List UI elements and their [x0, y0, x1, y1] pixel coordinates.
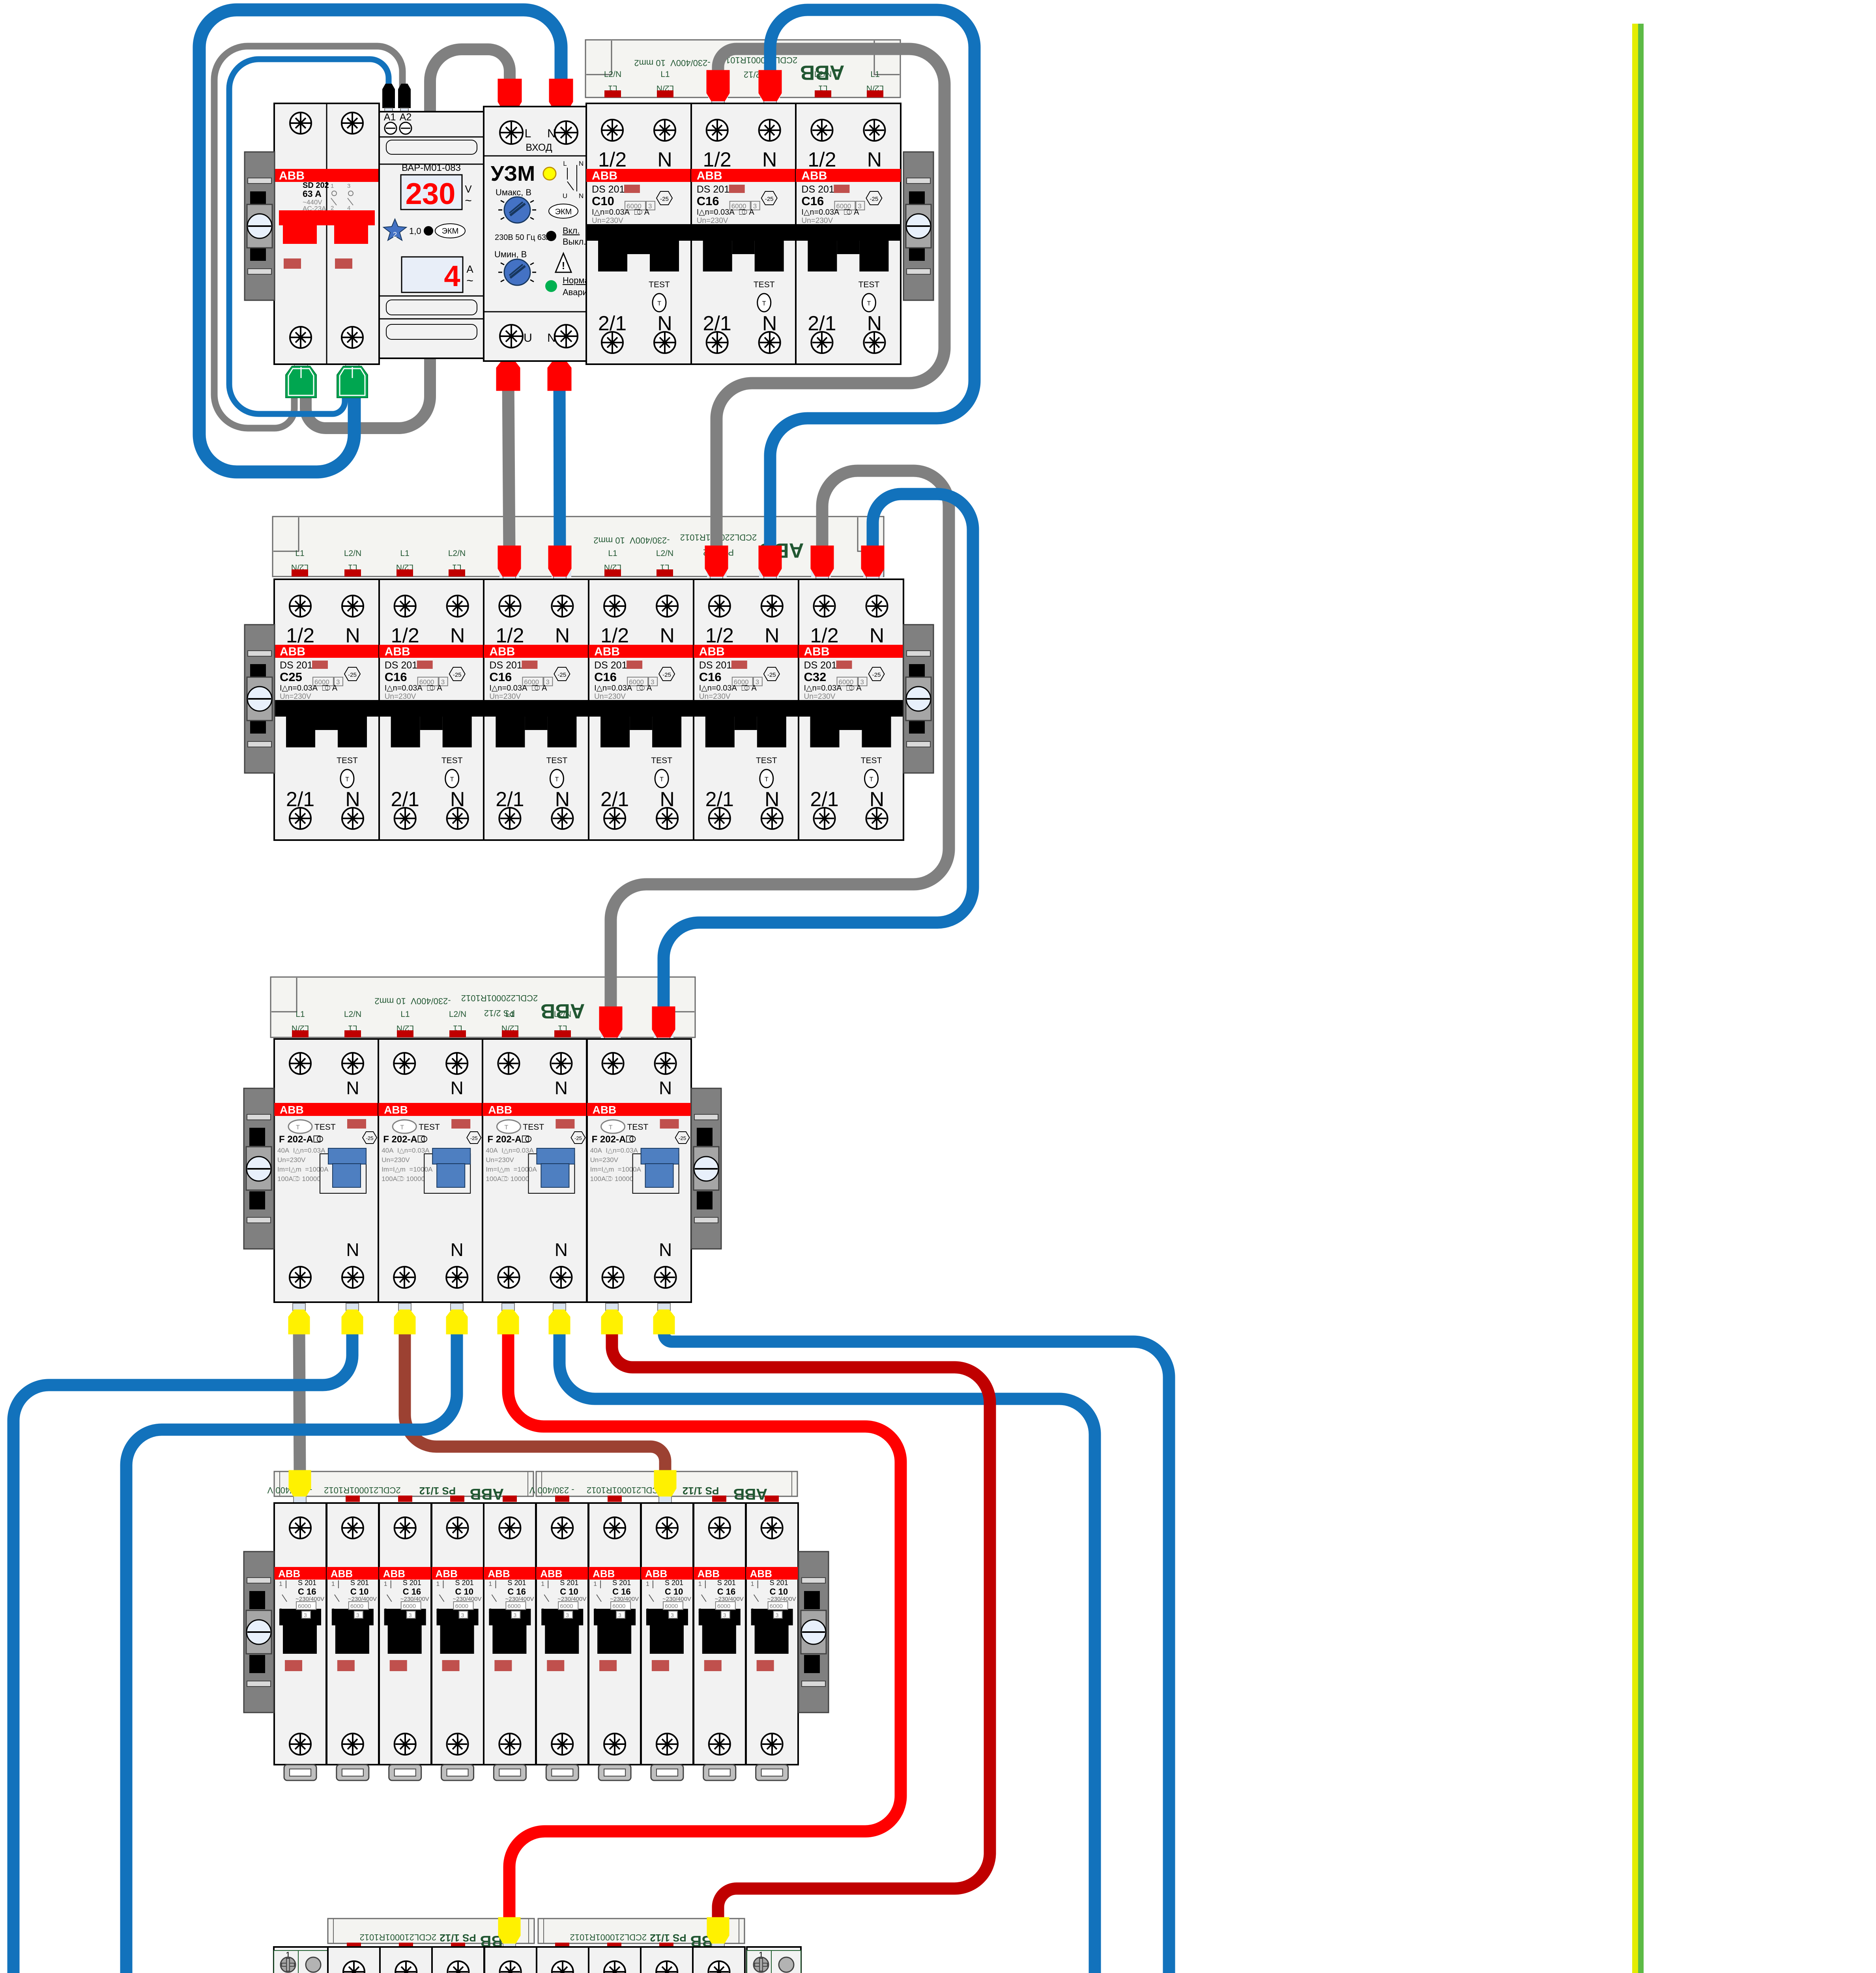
svg-text:-25: -25	[767, 672, 776, 678]
svg-text:N: N	[579, 192, 584, 200]
svg-text:N: N	[547, 127, 556, 140]
svg-text:ABB: ABB	[804, 645, 830, 658]
RCBO DS201 C16 row2 #3	[484, 579, 589, 840]
terminal cap: F202 output 3 (yellow)	[398, 1303, 411, 1310]
wire L: UZM U out to busbar2 (gray)	[508, 379, 509, 552]
svg-text:TEST: TEST	[756, 756, 777, 765]
svg-text:3: 3	[671, 1612, 674, 1618]
svg-text:C 10: C 10	[560, 1587, 578, 1597]
svg-text:L2/N: L2/N	[344, 549, 361, 558]
svg-text:6000: 6000	[665, 1603, 678, 1610]
terminal cap: busbar row5 left feed (yellow)	[503, 1943, 516, 1950]
svg-text:ABB: ABB	[594, 645, 620, 658]
RCBO DS201 C16 row2 #4	[589, 579, 694, 840]
wire L loop: busbar1 to busbar2 (gray)	[716, 49, 945, 552]
MCB S201 C16 row4 #9	[694, 1503, 746, 1780]
svg-text:40A I△n=0.03A: 40A I△n=0.03A	[382, 1147, 430, 1154]
RCBO DS201 C16 row2 #5	[694, 579, 799, 840]
terminal cap: UZM L input (red)	[503, 109, 516, 116]
terminal cap: UZM U output (red)	[502, 354, 514, 361]
svg-text:ABB: ABB	[385, 645, 410, 658]
svg-text:N: N	[346, 1239, 359, 1260]
svg-text:TEST: TEST	[859, 280, 880, 289]
svg-text:N: N	[555, 1239, 568, 1260]
svg-text:DS 201: DS 201	[594, 660, 627, 671]
svg-text:N: N	[762, 148, 777, 171]
terminal cap: busbar row4 right feed (yellow)	[659, 1496, 671, 1503]
svg-text:1: 1	[751, 1581, 754, 1587]
svg-text:C 10: C 10	[455, 1587, 473, 1597]
svg-text:A2: A2	[400, 112, 412, 123]
svg-text:Un=230V: Un=230V	[801, 217, 833, 225]
svg-text:!: !	[562, 260, 565, 271]
svg-text:I△n=0.03A ⎄ A: I△n=0.03A ⎄ A	[594, 684, 652, 693]
terminal cap: UZM N input (red)	[555, 109, 567, 116]
svg-text:C16: C16	[801, 194, 824, 208]
svg-text:L1: L1	[296, 1010, 305, 1019]
terminal cap: UZM A1 (black)	[382, 84, 395, 108]
busbar PS2 row2	[273, 517, 884, 577]
svg-text:1/2: 1/2	[600, 624, 629, 647]
svg-text:C 16: C 16	[612, 1587, 630, 1597]
svg-text:3: 3	[723, 1612, 726, 1618]
svg-text:A1: A1	[384, 112, 396, 123]
terminal cap: F202 output 5 (yellow)	[502, 1303, 514, 1310]
terminal cap: F202 output 6 (yellow)	[553, 1303, 566, 1310]
svg-text:TEST: TEST	[419, 1123, 440, 1132]
wire N: F202-3 to N block 3 (blue)	[559, 1326, 1095, 1973]
MCB S201 C16 row5 #6	[589, 1947, 641, 1973]
svg-text:230: 230	[406, 177, 456, 211]
svg-text:40A I△n=0.03A: 40A I△n=0.03A	[277, 1147, 325, 1154]
voltage relay UZM-51M main module	[484, 107, 592, 361]
svg-text:TEST: TEST	[754, 280, 775, 289]
svg-text:ABB: ABB	[384, 1104, 408, 1116]
svg-text:-25: -25	[453, 672, 462, 678]
svg-text:PS 1/12: PS 1/12	[419, 1485, 456, 1497]
svg-text:40A I△n=0.03A: 40A I△n=0.03A	[590, 1147, 638, 1154]
svg-text:C 16: C 16	[717, 1587, 735, 1597]
svg-text:УЗМ: УЗМ	[491, 162, 535, 185]
svg-text:L: L	[563, 160, 567, 167]
svg-text:1: 1	[331, 183, 334, 189]
svg-text:DS 201: DS 201	[804, 660, 837, 671]
svg-text:3: 3	[776, 1612, 779, 1618]
MCB S201 C10 row4 #10	[746, 1503, 798, 1780]
wire L: SD202 out to UZM A2 coil (gray)	[214, 46, 402, 428]
svg-text:3: 3	[461, 1612, 464, 1618]
svg-text:S 201: S 201	[717, 1579, 736, 1587]
terminal cap: SD202 output N (green)	[346, 357, 359, 367]
svg-text:1/2: 1/2	[598, 148, 627, 171]
DIN rail clip row4 left	[244, 1552, 274, 1713]
svg-text:S 201: S 201	[298, 1579, 316, 1587]
svg-text:T: T	[870, 776, 873, 783]
svg-text:ABB: ABB	[801, 169, 827, 182]
svg-text:I△n=0.03A ⎄ A: I△n=0.03A ⎄ A	[385, 684, 443, 693]
wire L: F202-2 to busbar row4 right (brown)	[405, 1326, 665, 1476]
svg-text:ABB: ABB	[699, 645, 725, 658]
svg-text:3: 3	[304, 1612, 307, 1618]
wire L: F202-3 to busbar row5 left (red)	[508, 1326, 901, 1926]
svg-text:S 201: S 201	[665, 1579, 683, 1587]
wire L: F202-1 to busbar row4 left (gray)	[299, 1326, 300, 1476]
svg-text:Вкл.: Вкл.	[563, 226, 580, 236]
DIN rail clip F202 left	[244, 1088, 274, 1249]
RCBO DS201 C10 row1 #1	[586, 103, 691, 364]
MCB S201 C16 row4 #1	[274, 1503, 326, 1780]
svg-text:- 230/400 V: - 230/400 V	[529, 1485, 574, 1495]
relay E290-16-10/230 left K1	[274, 1947, 330, 1973]
svg-text:U: U	[524, 331, 532, 344]
voltage relay UZM-51M display module VAR-M01-083	[379, 112, 484, 358]
svg-text:1: 1	[279, 1581, 282, 1587]
svg-text:I△n=0.03A ⎄ A: I△n=0.03A ⎄ A	[699, 684, 757, 693]
svg-text:6000: 6000	[507, 1603, 520, 1610]
MCB S201 C16 row4 #7	[589, 1503, 641, 1780]
svg-text:I△n=0.03A ⎄ A: I△n=0.03A ⎄ A	[592, 208, 650, 217]
svg-text:N: N	[659, 1078, 672, 1098]
RCBO DS201 C16 row1 #2	[691, 103, 796, 364]
wire N: F202-1 to N block 1 (blue)	[13, 1326, 352, 1973]
MCB S201 C16 row4 #5	[484, 1503, 536, 1780]
terminal cap: busbar1 N feed (red)	[764, 100, 776, 107]
svg-text:6000: 6000	[350, 1603, 363, 1610]
svg-text:ABB: ABB	[593, 1568, 615, 1580]
svg-text:N: N	[451, 1078, 464, 1098]
svg-text:1/2: 1/2	[808, 148, 836, 171]
DIN rail clip row4 right	[799, 1552, 829, 1713]
terminal cap: busbar2 tap L (red)	[816, 576, 829, 583]
terminal cap: UZM N output (red)	[553, 354, 566, 361]
terminal cap: F202 output 1 (yellow)	[293, 1303, 305, 1310]
terminal cap: busbar2 feed 2 N (red)	[764, 576, 776, 583]
MCB S201 C10 row5 #8	[693, 1947, 745, 1973]
svg-text:Un=230V: Un=230V	[280, 693, 311, 701]
svg-text:T: T	[400, 1124, 404, 1131]
svg-text:1: 1	[331, 1581, 335, 1587]
svg-text:ABB: ABB	[383, 1568, 405, 1580]
svg-text:1: 1	[541, 1581, 544, 1587]
svg-text:S 201: S 201	[507, 1579, 526, 1587]
svg-text:1/2: 1/2	[705, 624, 734, 647]
svg-text:Un=230V: Un=230V	[697, 217, 728, 225]
RCBO DS201 C16 row2 #2	[379, 579, 484, 840]
svg-text:Im=I△m =1000A: Im=I△m =1000A	[590, 1166, 642, 1173]
svg-text:Un=230V: Un=230V	[592, 217, 623, 225]
svg-text:I△n=0.03A ⎄ A: I△n=0.03A ⎄ A	[280, 684, 338, 693]
terminal cap: F202 output 8 (yellow)	[658, 1303, 670, 1310]
svg-text:ABB: ABB	[489, 645, 515, 658]
svg-text:~: ~	[466, 274, 473, 287]
terminal cap: busbar2 feed 1 N (red)	[554, 576, 566, 583]
svg-text:DS 201: DS 201	[489, 660, 522, 671]
svg-text:Выкл.: Выкл.	[563, 237, 586, 247]
svg-text:ABB: ABB	[733, 1485, 768, 1503]
RCBO DS201 C32 row2 #6	[799, 579, 904, 840]
svg-text:TEST: TEST	[651, 756, 672, 765]
svg-text:-230/400V 10 mm2: -230/400V 10 mm2	[374, 996, 451, 1006]
svg-text:S 201: S 201	[403, 1579, 421, 1587]
svg-text:2CDL210001R1012: 2CDL210001R1012	[587, 1485, 664, 1495]
wire N loop: busbar1 to busbar2 (blue)	[770, 10, 974, 552]
svg-text:TEST: TEST	[523, 1123, 544, 1132]
svg-text:1/2: 1/2	[703, 148, 731, 171]
svg-text:-25: -25	[558, 672, 567, 678]
svg-text:2CDL210001R1012: 2CDL210001R1012	[360, 1932, 437, 1942]
DIN rail clip row1 right	[903, 152, 933, 300]
RCD F202-A #4	[587, 1039, 691, 1302]
svg-text:3: 3	[347, 183, 350, 189]
RCBO DS201 C16 row1 #3	[796, 103, 901, 364]
svg-text:ВАР-М01-083: ВАР-М01-083	[402, 163, 461, 173]
svg-text:-25: -25	[872, 672, 881, 678]
svg-text:ЭКМ: ЭКМ	[442, 227, 459, 236]
MCB S201 C10 row4 #6	[536, 1503, 588, 1780]
RCD F202-A #1	[274, 1039, 378, 1302]
svg-text:1: 1	[384, 1581, 387, 1587]
svg-text:ABB: ABB	[697, 169, 722, 182]
RCD F202-A #3	[483, 1039, 587, 1302]
svg-text:ABB: ABB	[645, 1568, 667, 1580]
svg-text:C16: C16	[594, 670, 617, 684]
svg-text:1/2: 1/2	[286, 624, 314, 647]
svg-text:C16: C16	[697, 194, 719, 208]
MCB S201 C16 row5 #2	[380, 1947, 432, 1973]
svg-text:L2/N: L2/N	[449, 1010, 466, 1019]
svg-text:F 202-A⎄: F 202-A⎄	[383, 1134, 428, 1145]
svg-text:-25: -25	[662, 672, 671, 678]
svg-text:Un=230V: Un=230V	[804, 693, 836, 701]
terminal cap: F202 output 4 (yellow)	[451, 1303, 463, 1310]
svg-text:Un=230V: Un=230V	[489, 693, 521, 701]
wire L: SD202 out to UZM L input (gray)	[306, 49, 510, 428]
busbar PS1 row5 left	[328, 1919, 534, 1950]
svg-text:U: U	[563, 192, 567, 200]
busbar PS1 row4 right	[529, 1471, 797, 1503]
svg-text:Im=I△m =1000A: Im=I△m =1000A	[486, 1166, 537, 1173]
svg-text:L: L	[525, 127, 531, 140]
svg-text:N: N	[555, 624, 570, 647]
svg-text:N: N	[660, 624, 675, 647]
svg-text:Un=230V: Un=230V	[486, 1156, 514, 1164]
svg-text:1/2: 1/2	[810, 624, 838, 647]
svg-text:1/2: 1/2	[496, 624, 524, 647]
terminal cap: busbar1 L feed (red)	[712, 100, 724, 107]
svg-text:S 201: S 201	[612, 1579, 631, 1587]
svg-text:L1: L1	[505, 1010, 514, 1019]
terminal cap: busbar2 feed 1 L (red)	[503, 576, 516, 583]
svg-text:A: A	[466, 263, 473, 275]
svg-text:6000: 6000	[560, 1603, 573, 1610]
busbar PS1 row5 right	[538, 1919, 744, 1950]
wire PE vertical (yellow-green)	[1632, 24, 1644, 1973]
svg-text:Un=230V: Un=230V	[382, 1156, 410, 1164]
svg-text:C25: C25	[280, 670, 302, 684]
svg-text:ВХОД: ВХОД	[526, 142, 552, 153]
svg-text:I△n=0.03A ⎄ A: I△n=0.03A ⎄ A	[489, 684, 547, 693]
svg-text:S 201: S 201	[770, 1579, 788, 1587]
svg-text:C16: C16	[489, 670, 512, 684]
svg-text:-230/400V 10 mm2: -230/400V 10 mm2	[593, 535, 670, 545]
svg-text:Un=230V: Un=230V	[590, 1156, 619, 1164]
svg-text:ABB: ABB	[592, 169, 617, 182]
svg-text:N: N	[579, 160, 584, 167]
svg-text:T: T	[555, 776, 559, 783]
svg-text:-25: -25	[574, 1135, 582, 1141]
svg-text:6000: 6000	[298, 1603, 311, 1610]
svg-text:L2/N: L2/N	[554, 1010, 571, 1019]
svg-text:2CDL210001R1012: 2CDL210001R1012	[570, 1932, 647, 1942]
svg-text:4: 4	[444, 260, 460, 292]
svg-text:DS 201: DS 201	[592, 184, 625, 195]
svg-text:Im=I△m =1000A: Im=I△m =1000A	[382, 1166, 433, 1173]
svg-text:L1: L1	[400, 549, 409, 558]
svg-text:DS 201: DS 201	[280, 660, 312, 671]
RCBO DS201 C25 row2 #1	[274, 579, 379, 840]
wire N loop: busbar2 to F202 busbar (blue)	[664, 494, 973, 1014]
svg-text:N: N	[659, 1239, 672, 1260]
wire L: F202-4 to busbar row5 right (dark red)	[612, 1326, 990, 1926]
terminal cap: F202 busbar N feed (red)	[657, 1037, 670, 1044]
svg-text:ABB: ABB	[278, 1568, 300, 1580]
svg-text:6000: 6000	[612, 1603, 625, 1610]
svg-text:N: N	[346, 1078, 359, 1098]
svg-text:-25: -25	[470, 1135, 478, 1141]
svg-text:2CDL220001R1012: 2CDL220001R1012	[721, 55, 798, 65]
svg-text:N: N	[450, 624, 465, 647]
svg-text:6000: 6000	[770, 1603, 783, 1610]
svg-text:PS 1/12: PS 1/12	[683, 1485, 719, 1497]
svg-text:2CDL220001R1012: 2CDL220001R1012	[461, 993, 538, 1003]
busbar PS2 F202	[271, 977, 695, 1038]
svg-text:DS 201: DS 201	[801, 184, 834, 195]
svg-text:ABB: ABB	[436, 1568, 458, 1580]
svg-text:L2/N: L2/N	[604, 70, 621, 79]
svg-text:C10: C10	[592, 194, 614, 208]
svg-text:Uмакс, В: Uмакс, В	[496, 187, 531, 197]
svg-text:ABB: ABB	[488, 1104, 512, 1116]
svg-text:C 10: C 10	[350, 1587, 368, 1597]
terminal cap: F202 busbar L feed (red)	[604, 1037, 617, 1044]
svg-text:6000: 6000	[455, 1603, 468, 1610]
svg-text:-25: -25	[765, 196, 774, 202]
svg-text:100A⎄ 10000: 100A⎄ 10000	[590, 1175, 634, 1183]
DIN rail clip F202 right	[691, 1088, 721, 1249]
svg-text:-25: -25	[348, 672, 357, 678]
wire N: SD202 out to UZM A1 coil (blue)	[229, 59, 389, 414]
svg-text:ABB: ABB	[540, 1568, 562, 1580]
svg-text:F 202-A⎄: F 202-A⎄	[592, 1134, 636, 1145]
svg-text:L2/N: L2/N	[814, 70, 832, 79]
svg-text:N: N	[765, 624, 780, 647]
relay E290-16-10/230 right K2	[747, 1947, 803, 1973]
svg-text:ЭКМ: ЭКМ	[555, 208, 572, 216]
svg-text:ABB: ABB	[698, 1568, 720, 1580]
svg-text:ABB: ABB	[750, 1568, 772, 1580]
terminal cap: UZM A2 (black)	[398, 84, 411, 108]
svg-text:C 16: C 16	[298, 1587, 316, 1597]
svg-text:N: N	[870, 624, 885, 647]
terminal cap: busbar row5 right feed (yellow)	[712, 1943, 724, 1950]
svg-text:6000: 6000	[403, 1603, 416, 1610]
terminal cap: busbar row4 left feed (yellow)	[294, 1496, 306, 1503]
MCB S201 C16 row5 #5	[537, 1947, 589, 1973]
svg-text:1: 1	[646, 1581, 649, 1587]
wire N: SD202 out to UZM N input (blue)	[199, 10, 561, 472]
svg-text:DS 201: DS 201	[385, 660, 417, 671]
svg-text:N: N	[657, 148, 672, 171]
svg-text:L1: L1	[400, 1010, 410, 1019]
svg-text:3: 3	[513, 1612, 516, 1618]
svg-text:1: 1	[698, 1581, 702, 1587]
svg-text:F 202-A⎄: F 202-A⎄	[279, 1134, 324, 1145]
svg-text:TEST: TEST	[441, 756, 463, 765]
svg-text:PS 1/12: PS 1/12	[440, 1932, 476, 1944]
svg-text:TEST: TEST	[546, 756, 568, 765]
svg-text:TEST: TEST	[337, 756, 358, 765]
svg-text:S 201: S 201	[350, 1579, 369, 1587]
svg-text:TEST: TEST	[861, 756, 882, 765]
busbar PS1 row4 left	[267, 1471, 533, 1503]
svg-text:3: 3	[566, 1612, 569, 1618]
svg-text:ABB: ABB	[488, 1568, 510, 1580]
svg-text:C16: C16	[385, 670, 407, 684]
svg-text:100A⎄ 10000: 100A⎄ 10000	[277, 1175, 321, 1183]
MCB S201 C16 row5 #7	[641, 1947, 693, 1973]
svg-text:1: 1	[593, 1581, 597, 1587]
svg-text:2: 2	[393, 231, 397, 239]
svg-text:T: T	[450, 776, 454, 783]
svg-text:-25: -25	[870, 196, 879, 202]
svg-text:T: T	[296, 1124, 300, 1131]
DIN rail clip row2 left	[245, 625, 275, 773]
svg-text:C 10: C 10	[770, 1587, 788, 1597]
wire N: UZM N out to busbar2 (blue)	[559, 379, 560, 552]
svg-text:F 202-A⎄: F 202-A⎄	[487, 1134, 532, 1145]
svg-text:Un=230V: Un=230V	[594, 693, 626, 701]
svg-text:Uмин, В: Uмин, В	[494, 249, 527, 259]
terminal cap: F202 output 2 (yellow)	[346, 1303, 359, 1310]
svg-text:-25: -25	[366, 1135, 374, 1141]
svg-text:ABB: ABB	[469, 1485, 504, 1503]
svg-text:T: T	[762, 300, 766, 307]
svg-text:Un=230V: Un=230V	[385, 693, 416, 701]
svg-text:1: 1	[488, 1581, 492, 1587]
DIN rail clip row2 right	[903, 625, 933, 773]
svg-text:L2/N: L2/N	[448, 549, 466, 558]
svg-text:~: ~	[465, 194, 472, 207]
svg-text:230В 50 Гц 63А: 230В 50 Гц 63А	[495, 233, 552, 242]
svg-text:T: T	[609, 1124, 613, 1131]
terminal cap: F202 output 7 (yellow)	[606, 1303, 618, 1310]
svg-text:C 16: C 16	[507, 1587, 526, 1597]
svg-text:S 201: S 201	[560, 1579, 578, 1587]
svg-text:DS 201: DS 201	[697, 184, 729, 195]
wire N: F202-4 to N block 4 (blue)	[664, 1326, 1169, 1973]
svg-text:1/2: 1/2	[391, 624, 419, 647]
svg-text:DS 201: DS 201	[699, 660, 732, 671]
svg-text:N: N	[451, 1239, 464, 1260]
svg-text:N: N	[555, 1078, 568, 1098]
svg-text:TEST: TEST	[649, 280, 670, 289]
svg-text:6000: 6000	[717, 1603, 730, 1610]
svg-text:N: N	[547, 331, 556, 344]
busbar PS2 row1	[585, 40, 900, 98]
svg-text:Im=I△m =1000A: Im=I△m =1000A	[277, 1166, 329, 1173]
svg-text:C16: C16	[699, 670, 722, 684]
svg-text:Un=230V: Un=230V	[277, 1156, 306, 1164]
